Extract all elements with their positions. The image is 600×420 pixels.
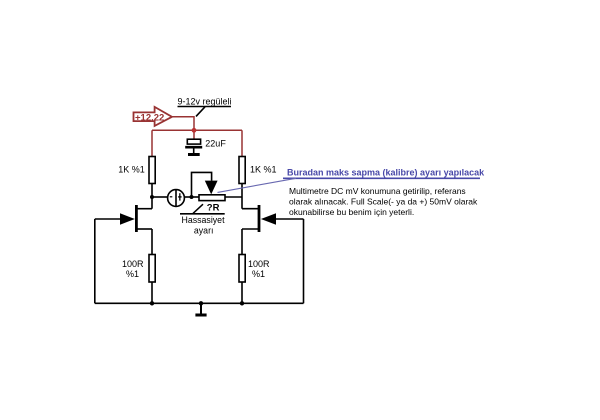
wire right source down — [241, 229, 243, 255]
wire left outer loop — [94, 219, 96, 303]
power arrow +12.22 — [134, 107, 173, 126]
wire left 100R to bottom rail — [151, 282, 153, 303]
label 9-12v regüleli — [178, 96, 232, 116]
svg-text:100R: 100R — [248, 259, 270, 269]
annotation title blue — [283, 168, 485, 179]
wire right outer loop — [303, 219, 305, 303]
svg-text:?R: ?R — [207, 203, 220, 214]
voltage source V1 — [168, 190, 185, 207]
resistor R2 1K right — [239, 157, 245, 184]
wire right 100R to bottom rail — [241, 282, 243, 303]
resistor R4 100R right — [239, 255, 245, 283]
junction node left drain — [150, 195, 154, 199]
wire +12V from arrow tip — [172, 117, 194, 131]
label 1K %1 left — [118, 165, 145, 175]
wire red left drop to R1 — [151, 130, 153, 156]
junction node left source rail — [150, 301, 154, 305]
annotation text black — [289, 186, 478, 217]
wire wiper loop — [192, 172, 212, 197]
svg-text:1K %1: 1K %1 — [250, 165, 277, 175]
wire left source down — [151, 229, 153, 255]
junction +12V node — [192, 128, 197, 133]
label Hassasiyet ayari with leader — [180, 204, 225, 235]
wiper arrow of ?R — [205, 181, 218, 195]
svg-text:ayarı: ayarı — [194, 225, 214, 235]
wire R1 bottom to main node — [151, 184, 153, 209]
resistor R1 1K left — [149, 157, 155, 184]
capacitor C1 22uF — [185, 139, 202, 153]
potentiometer ?R body — [199, 195, 225, 201]
ground — [195, 303, 206, 315]
svg-text:%1: %1 — [126, 269, 139, 279]
junction node ground tap — [199, 301, 203, 305]
junction node right source rail — [240, 301, 244, 305]
wire bottom rail — [95, 302, 304, 304]
junction node wiper tap — [190, 195, 194, 199]
svg-text:Hassasiyet: Hassasiyet — [182, 215, 226, 225]
transistor Q1 left JFET — [120, 205, 152, 232]
svg-text:100R: 100R — [122, 259, 144, 269]
wire source circle to potentiometer — [184, 196, 199, 198]
label 100R %1 right — [248, 259, 270, 279]
svg-text:1K %1: 1K %1 — [118, 165, 145, 175]
svg-text:%1: %1 — [252, 269, 265, 279]
leader line blue to wiper — [218, 178, 297, 192]
wire right gate — [276, 218, 304, 220]
value label 22uF — [205, 139, 226, 149]
wire potentiometer to right drain — [225, 196, 242, 198]
wire red stub to capacitor — [193, 130, 195, 139]
label ?R — [207, 203, 220, 214]
label 100R %1 left — [122, 259, 144, 279]
svg-text:Buradan maks sapma (kalibre) a: Buradan maks sapma (kalibre) ayarı yapıl… — [287, 168, 485, 178]
svg-text:Multimetre DC mV konumuna geti: Multimetre DC mV konumuna getirilip, ref… — [289, 186, 466, 196]
svg-text:olarak alınacak. Full Scale(-: olarak alınacak. Full Scale(- ya da +) 5… — [289, 197, 478, 207]
svg-text:22uF: 22uF — [205, 139, 226, 149]
wire right resistor bottom to drain corner — [241, 184, 243, 209]
resistor R3 100R left — [149, 255, 155, 283]
transistor Q2 right JFET — [242, 205, 276, 232]
wire main node to source circle — [152, 196, 168, 198]
wire +12V bus — [152, 129, 242, 131]
svg-text:9-12v regüleli: 9-12v regüleli — [178, 96, 232, 106]
svg-text:+12.22: +12.22 — [135, 112, 164, 123]
label 1K %1 right — [250, 165, 277, 175]
wire red right drop to R2 — [241, 130, 243, 156]
svg-text:okunabilirse bu benim için yet: okunabilirse bu benim için yeterli. — [289, 207, 414, 217]
wire left gate — [95, 218, 120, 220]
ground under capacitor — [188, 153, 200, 156]
